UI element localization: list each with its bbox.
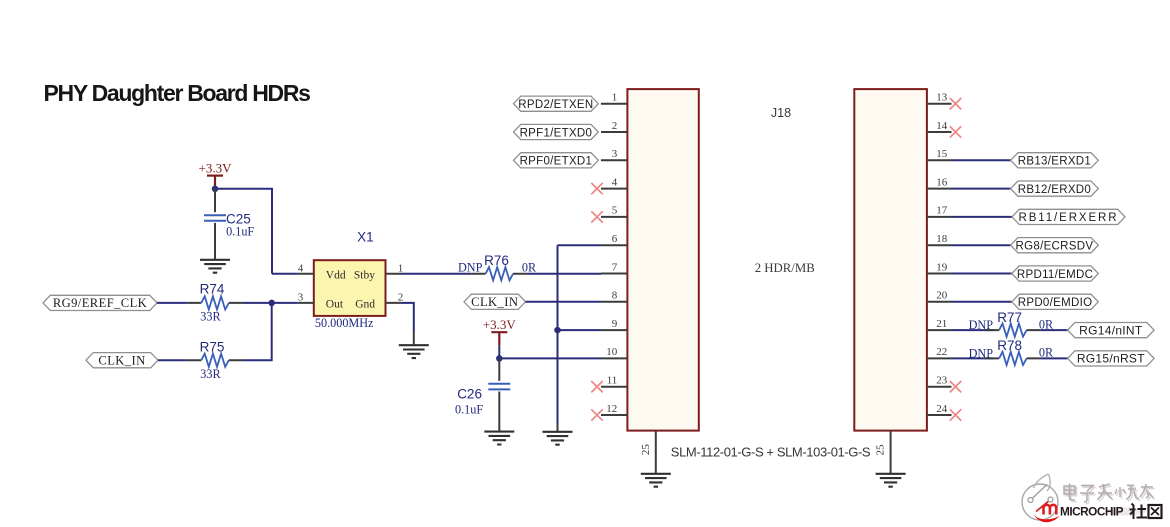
resistor R77: [985, 324, 1041, 337]
wire stub to ground: [413, 332, 415, 346]
no-connect X on J18 pin 5: [591, 211, 602, 222]
wire J18 pin 19 to port RPD11/EMDC: [952, 273, 1012, 275]
power stem (red part): [498, 332, 500, 345]
svg-text:RPF1/ETXD0: RPF1/ETXD0: [520, 127, 593, 139]
port RPD11/EMDC: [1012, 266, 1099, 281]
port RG14/nINT: [1068, 323, 1155, 338]
X1 pin leads: [298, 274, 402, 303]
svg-text:DNP: DNP: [458, 260, 483, 274]
svg-text:23: 23: [936, 375, 948, 387]
wire J18 pin 16 to port RB12/ERXD0: [952, 188, 1011, 190]
port RG9/EREF_CLK: [43, 295, 157, 310]
svg-text:CLK_IN: CLK_IN: [98, 354, 145, 368]
svg-text:2 HDR/MB: 2 HDR/MB: [755, 261, 815, 275]
wire R75 up to junction: [243, 303, 272, 360]
svg-text:SLM-112-01-G-S + SLM-103-01-G-: SLM-112-01-G-S + SLM-103-01-G-S: [671, 444, 871, 459]
watermark logo circle: [1022, 474, 1060, 522]
svg-text:J18: J18: [771, 106, 791, 120]
wire J18 pin 6: [558, 244, 602, 246]
connector J18 right body: [854, 89, 927, 431]
no-connect X on J18 pin 11: [591, 381, 602, 392]
wire +3.3V to X1 pin 4: [215, 189, 272, 274]
J18 left pin numbers 1-12: [606, 92, 618, 415]
wire CLK_IN to J18 pin 8: [526, 301, 602, 303]
svg-text:24: 24: [936, 403, 948, 415]
no-connect X on J18 pin 13: [950, 98, 961, 109]
wire J18 pin 21 to R77: [952, 329, 993, 331]
port RG15/nRST: [1068, 351, 1155, 366]
svg-text:5: 5: [612, 205, 618, 217]
wire into X1 pin 4: [272, 273, 298, 275]
ground below J18 left pin 25: [641, 474, 671, 487]
resistor R78: [985, 352, 1041, 365]
svg-text:R76: R76: [484, 253, 509, 268]
junction node bus / pin 9: [554, 327, 561, 334]
svg-text:+3.3V: +3.3V: [483, 317, 517, 332]
svg-text:18: 18: [936, 233, 948, 245]
svg-text:3: 3: [612, 148, 618, 160]
wire J18 pin 22 to R78: [952, 357, 993, 359]
bus stub to ground: [557, 424, 559, 432]
capacitor C25: [204, 215, 226, 221]
svg-text:14: 14: [936, 120, 948, 132]
no-connect X on J18 pin 24: [950, 409, 961, 420]
svg-text:4: 4: [298, 262, 304, 274]
svg-text:RPF0/ETXD1: RPF0/ETXD1: [520, 156, 593, 168]
port RPF0/ETXD1: [514, 153, 599, 168]
svg-text:17: 17: [936, 205, 948, 217]
svg-text:RB12/ERXD0: RB12/ERXD0: [1018, 184, 1091, 196]
svg-text:R77: R77: [997, 310, 1022, 325]
watermark chinese text 电子发烧友: [1066, 485, 1155, 504]
wire C26 to ground: [498, 392, 500, 432]
svg-text:Out: Out: [326, 299, 344, 311]
svg-text:MICROCHIP: MICROCHIP: [1060, 505, 1124, 519]
wire R78 to port: [1041, 357, 1068, 359]
svg-text:C26: C26: [457, 386, 482, 401]
port RB11/ERXERR: [1012, 209, 1125, 224]
svg-text:0.1uF: 0.1uF: [455, 403, 483, 417]
svg-text:25: 25: [875, 444, 887, 456]
svg-text:Gnd: Gnd: [355, 299, 375, 311]
svg-text:PHY Daughter Board HDRs: PHY Daughter Board HDRs: [44, 80, 311, 106]
junction node R74/R75: [268, 300, 275, 307]
svg-text:33R: 33R: [200, 310, 221, 324]
svg-text:RPD11/EMDC: RPD11/EMDC: [1017, 269, 1093, 281]
wire J18 pin 15 to port RB13/ERXD1: [952, 159, 1011, 161]
J18 right pin numbers 13-24: [936, 92, 948, 415]
resistor R75: [187, 354, 243, 367]
svg-text:8: 8: [612, 290, 618, 302]
wire R74 to X1 pin 3: [243, 302, 298, 304]
junction node at +3.3V / C25: [212, 186, 219, 193]
power stem wire: [214, 176, 216, 189]
svg-text:22: 22: [936, 346, 947, 358]
capacitor C26: [488, 384, 510, 390]
resistor R74: [187, 296, 243, 309]
svg-text:4: 4: [612, 176, 618, 188]
port RB13/ERXD1: [1011, 153, 1099, 168]
svg-text:9: 9: [612, 318, 618, 330]
port RPF1/ETXD0: [514, 124, 599, 139]
svg-text:1: 1: [398, 262, 404, 274]
wire junction to C26: [498, 358, 500, 380]
wire CLK_IN port to R75: [158, 359, 187, 361]
J18 left pin stubs: [601, 104, 627, 415]
svg-text:RG9/EREF_CLK: RG9/EREF_CLK: [53, 296, 147, 310]
svg-text:RPD2/ETXEN: RPD2/ETXEN: [518, 99, 593, 111]
svg-text:0R: 0R: [522, 260, 537, 274]
svg-text:R75: R75: [200, 340, 225, 355]
wire RG9 port to R74: [157, 302, 187, 304]
svg-text:3: 3: [298, 292, 304, 304]
junction node +3.3V / C26: [496, 355, 503, 362]
oscillator X1 body: [314, 260, 386, 316]
svg-text:10: 10: [606, 346, 618, 358]
svg-text:19: 19: [936, 261, 948, 273]
svg-text:16: 16: [936, 176, 948, 188]
power +3.3V symbol (top left): [199, 160, 233, 175]
port RPD0/EMDIO: [1012, 294, 1099, 309]
no-connect X on J18 pin 14: [950, 126, 961, 137]
port RG8/ECRSDV: [1011, 238, 1099, 253]
svg-text:RB13/ERXD1: RB13/ERXD1: [1018, 156, 1091, 168]
port CLK_IN (middle): [464, 294, 526, 309]
svg-text:RPD0/EMDIO: RPD0/EMDIO: [1018, 297, 1093, 309]
svg-text:50.000MHz: 50.000MHz: [315, 316, 374, 330]
svg-text:21: 21: [936, 318, 947, 330]
wire R76 to J18 pin 7: [527, 273, 601, 275]
svg-text:2: 2: [612, 120, 618, 132]
port CLK_IN (left): [86, 353, 158, 368]
svg-text:RG15/nRST: RG15/nRST: [1077, 352, 1145, 366]
svg-text:13: 13: [936, 92, 948, 104]
svg-text:12: 12: [606, 403, 617, 415]
svg-text:25: 25: [640, 444, 652, 456]
svg-text:15: 15: [936, 148, 948, 160]
wire X1 pin 1 to R76: [402, 273, 472, 275]
svg-text:CLK_IN: CLK_IN: [471, 295, 518, 309]
wire +3.3V to J18 pin 10: [499, 357, 601, 359]
power +3.3V symbol (middle): [483, 317, 517, 332]
svg-text:0.1uF: 0.1uF: [226, 225, 254, 239]
vertical ground bus wire: [557, 245, 559, 423]
wire C25 to ground: [214, 223, 216, 260]
wire J18 pin 17 to port RB11/ERXERR: [952, 216, 1013, 218]
svg-text:R78: R78: [997, 338, 1022, 353]
svg-text:R74: R74: [200, 281, 225, 296]
svg-text:6: 6: [612, 233, 618, 245]
no-connect X on J18 pin 12: [591, 409, 602, 420]
port RPD2/ETXEN: [514, 96, 599, 111]
svg-text:2: 2: [398, 292, 404, 304]
wire R77 to port: [1041, 329, 1068, 331]
ground below J18 right pin 25: [876, 474, 906, 487]
svg-text:X1: X1: [357, 229, 374, 244]
no-connect X on J18 pin 4: [591, 183, 602, 194]
svg-text:33R: 33R: [200, 367, 221, 381]
svg-text:7: 7: [612, 261, 618, 273]
svg-text:RG14/nINT: RG14/nINT: [1079, 323, 1143, 337]
wire J18 pin 9: [558, 329, 602, 331]
ground below C25: [200, 260, 230, 273]
no-connect X on J18 pin 23: [950, 381, 961, 392]
J18 right pin 25 stub: [890, 431, 892, 474]
watermark text MICROCHIP: [1060, 504, 1162, 520]
connector J18 left body: [627, 89, 698, 431]
wire junction to C25: [214, 189, 216, 212]
ground below C26: [484, 432, 514, 445]
svg-text:20: 20: [936, 290, 948, 302]
svg-text:+3.3V: +3.3V: [199, 160, 233, 175]
J18 right pin stubs: [927, 104, 952, 415]
power stem wire to pin10 net: [498, 345, 500, 358]
svg-text:RB11/ERXERR: RB11/ERXERR: [1019, 212, 1119, 224]
resistor R76: [471, 267, 527, 280]
svg-text:Stby: Stby: [354, 270, 375, 282]
svg-text:Vdd: Vdd: [326, 270, 346, 282]
svg-text:11: 11: [607, 375, 618, 387]
J18 left pin 25 stub: [655, 431, 657, 474]
svg-text:1: 1: [612, 92, 618, 104]
svg-text:RG8/ECRSDV: RG8/ECRSDV: [1016, 241, 1094, 253]
ground below X1: [399, 345, 429, 358]
port RB12/ERXD0: [1011, 181, 1099, 196]
ground below bus: [543, 432, 573, 445]
wire X1 pin 2 down: [402, 303, 414, 332]
wire J18 pin 20 to port RPD0/EMDIO: [952, 301, 1012, 303]
wire J18 pin 18 to port RG8/ECRSDV: [952, 244, 1011, 246]
